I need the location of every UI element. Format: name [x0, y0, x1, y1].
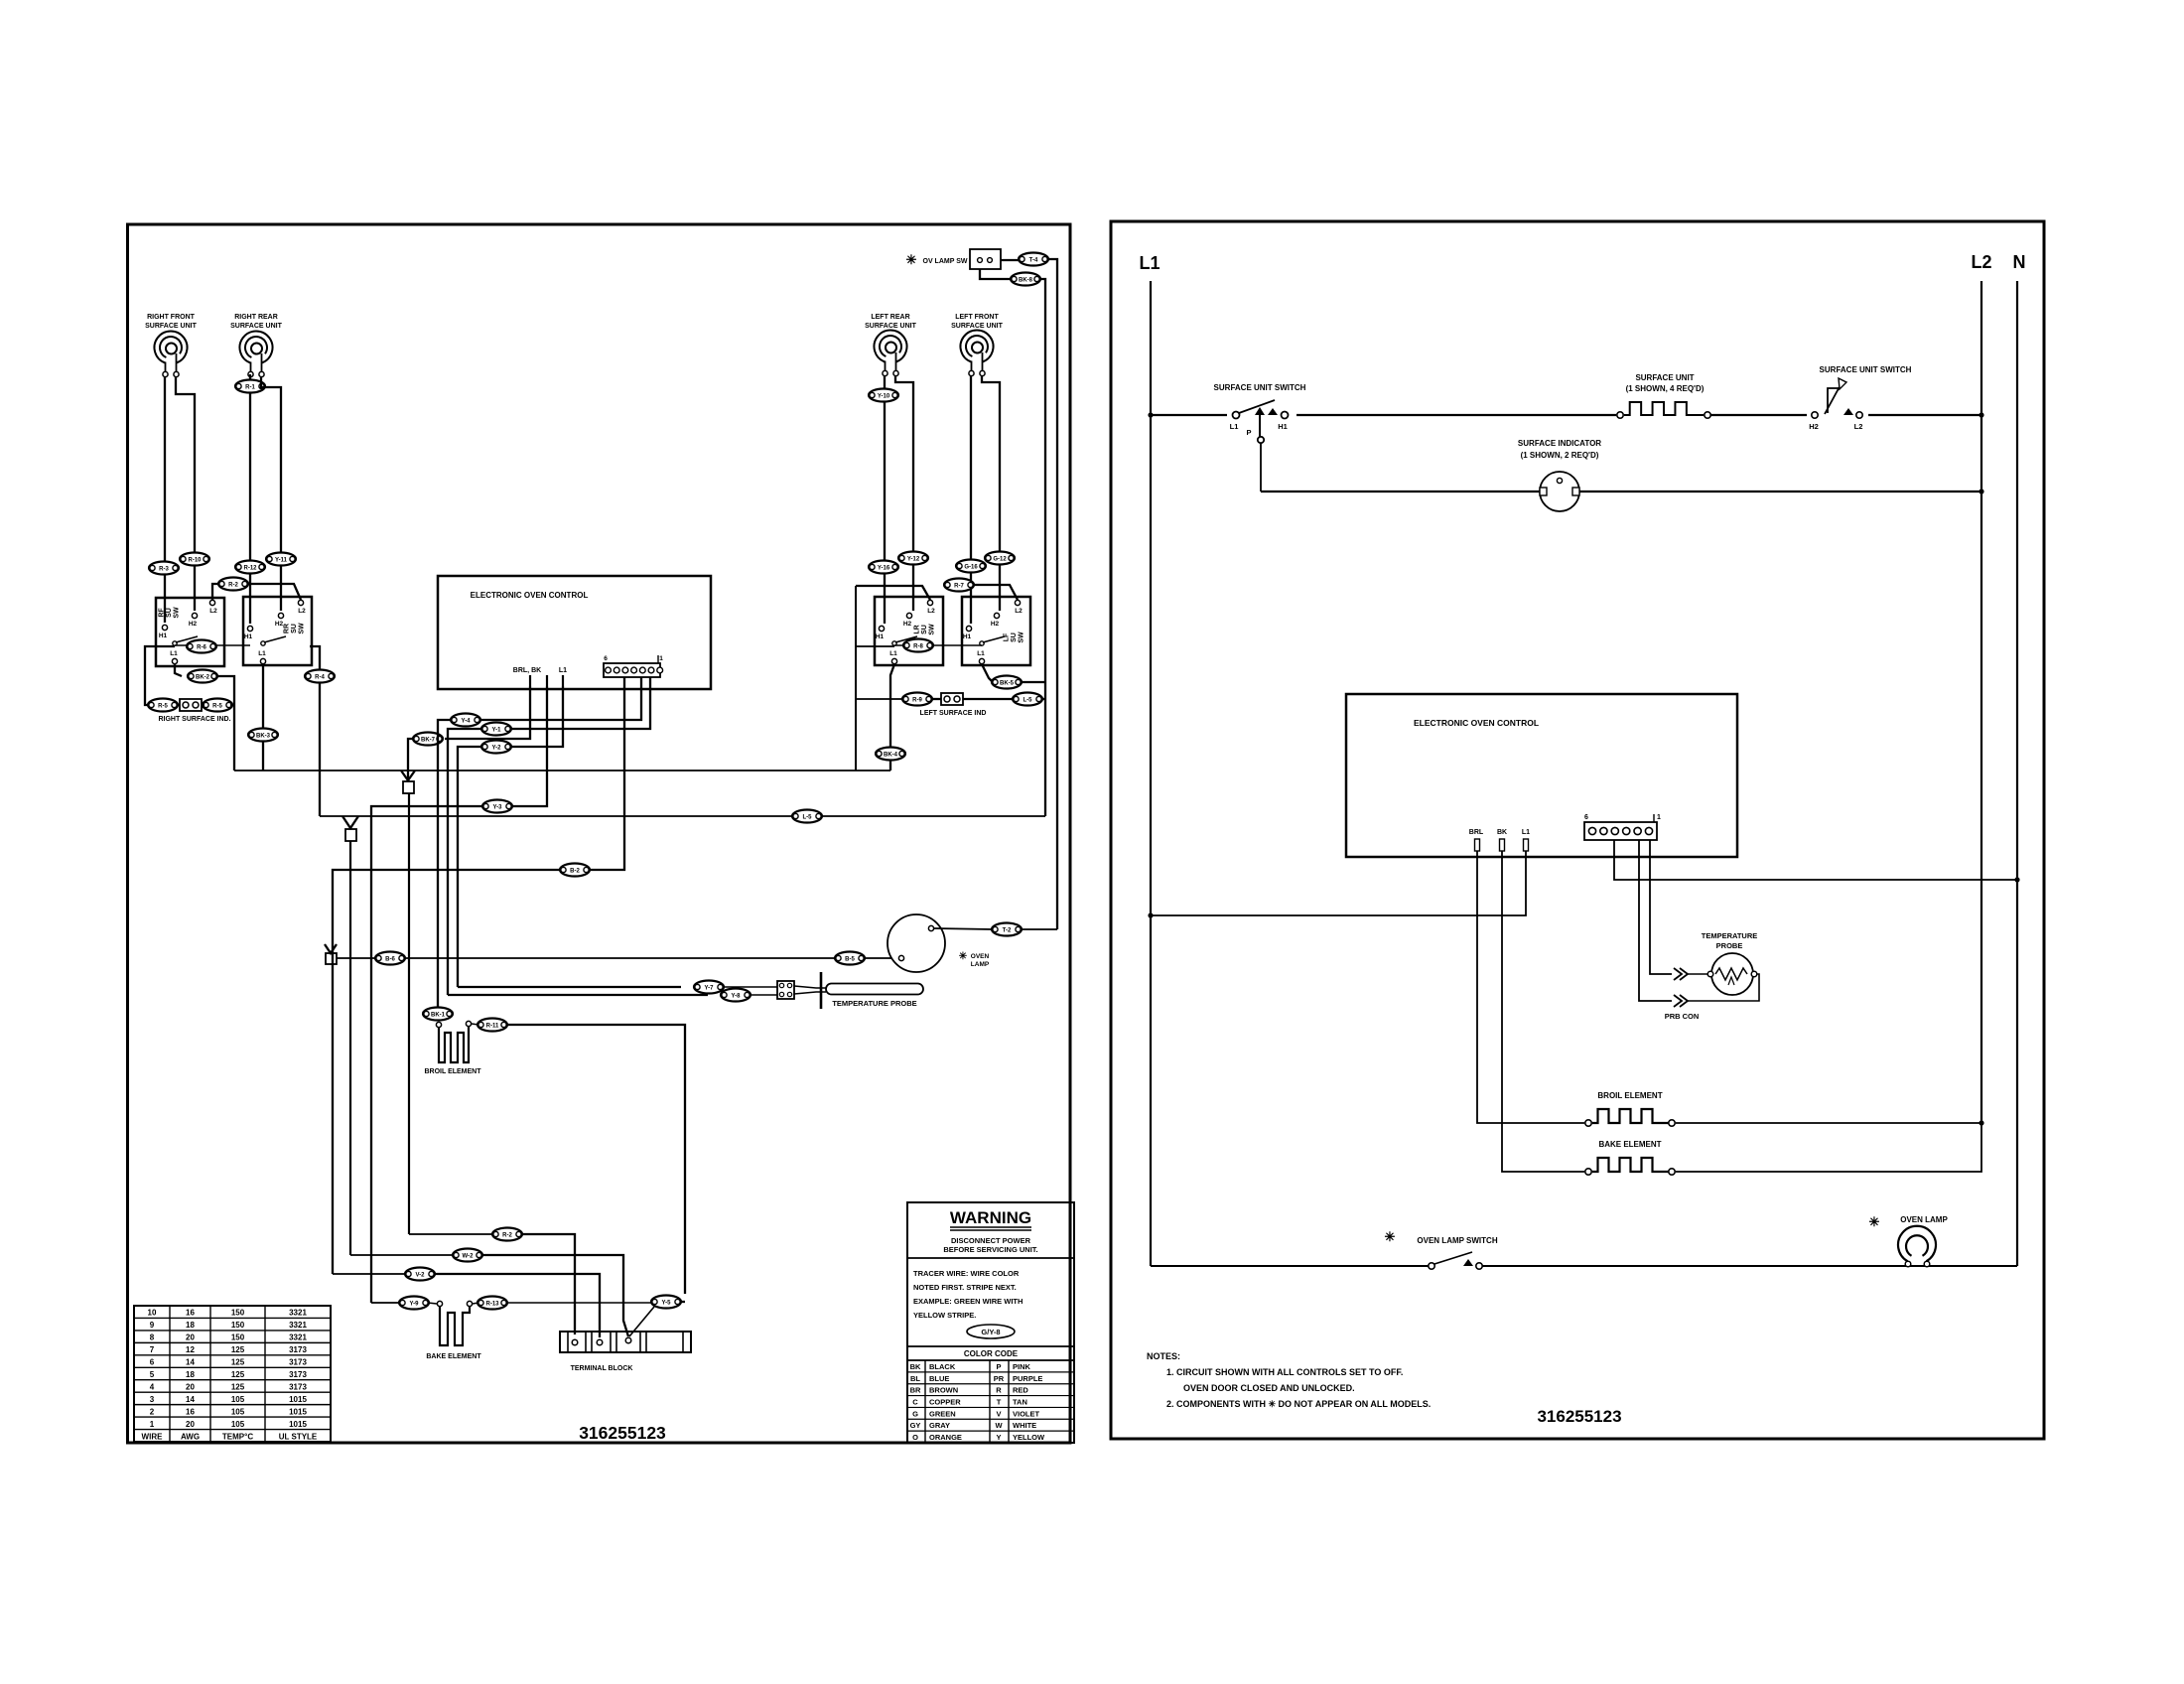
bake element [426, 1301, 481, 1360]
svg-text:TEMPERATURE: TEMPERATURE [1702, 931, 1758, 940]
wire LF left lead [970, 376, 972, 624]
left surface indicator row [902, 693, 1045, 718]
wire RF right lead [176, 377, 195, 611]
svg-text:R-2: R-2 [228, 582, 238, 588]
switch box LF SU SW [962, 597, 1030, 665]
wire Y-2 to vertical x461 [458, 747, 481, 987]
svg-text:BLUE: BLUE [929, 1374, 949, 1383]
connector R-8 between box3 and box4 arms [894, 644, 982, 646]
svg-text:150: 150 [231, 1321, 245, 1330]
right panel border [1111, 221, 2044, 1439]
svg-text:N: N [2013, 252, 2026, 272]
connector B-2 [560, 864, 590, 877]
svg-text:Y-5: Y-5 [661, 1300, 671, 1306]
surface unit switch right (thermal) [1807, 365, 1912, 431]
svg-text:R-9: R-9 [912, 697, 922, 703]
wire Y-5 corner from broil return [681, 1301, 685, 1303]
temperature probe body [794, 972, 923, 1009]
svg-text:R-10: R-10 [188, 557, 202, 563]
svg-text:16: 16 [186, 1309, 195, 1318]
jumper wire box1 L2 to box2 L2 via R-2 [212, 584, 219, 600]
svg-text:OV LAMP SW: OV LAMP SW [923, 258, 968, 265]
wire R-7 to box4 L2 [973, 585, 1018, 600]
svg-text:R-2: R-2 [502, 1232, 512, 1238]
connector R-1 on RR left lead [235, 380, 265, 393]
svg-text:T: T [997, 1397, 1002, 1406]
svg-text:H1: H1 [244, 633, 253, 640]
svg-text:R-13: R-13 [485, 1301, 499, 1307]
switch box RF SU SW [156, 598, 224, 666]
svg-text:✳: ✳ [1385, 1229, 1396, 1244]
svg-text:SURFACE UNIT: SURFACE UNIT [1635, 373, 1694, 382]
wire Y-3 to vertical x374 [371, 806, 482, 1303]
svg-text:8: 8 [150, 1333, 155, 1342]
wire RR left lead [249, 374, 251, 624]
svg-text:Y-16: Y-16 [878, 565, 890, 571]
svg-text:BK-2: BK-2 [196, 674, 210, 680]
right-side vertical wire to indicator feed [1044, 288, 1046, 816]
svg-text:BLACK: BLACK [929, 1362, 956, 1371]
svg-text:P: P [996, 1362, 1001, 1371]
surface unit coil LF [951, 314, 1003, 376]
wire R3 right segment [434, 1274, 600, 1337]
svg-text:T-4: T-4 [1029, 257, 1038, 263]
wire box1 L1 to connector BK-2 [175, 664, 182, 676]
svg-text:H1: H1 [159, 632, 168, 639]
svg-text:1015: 1015 [289, 1395, 307, 1404]
svg-text:PR: PR [994, 1374, 1005, 1383]
svg-text:NOTES:: NOTES: [1147, 1351, 1180, 1361]
connector W-2 [453, 1249, 482, 1262]
wire junction A down [408, 793, 410, 1234]
svg-text:1. CIRCUIT SHOWN WITH ALL CON: 1. CIRCUIT SHOWN WITH ALL CONTROLS SET T… [1166, 1367, 1403, 1377]
switch box RR SU SW [243, 597, 312, 665]
svg-text:AWG: AWG [181, 1432, 200, 1441]
svg-text:SURFACE UNIT: SURFACE UNIT [145, 323, 197, 330]
connector Y-9 [399, 1297, 429, 1310]
connector Y-16 on LR left lead lower [869, 561, 898, 574]
svg-text:150: 150 [231, 1309, 245, 1318]
wire box4 L1 to connector BK-5 [982, 664, 993, 682]
connector R-2 [218, 578, 248, 591]
svg-text:RF: RF [158, 608, 165, 618]
svg-text:BR: BR [910, 1386, 921, 1395]
wire BK-8 to vertical [1039, 279, 1045, 288]
EOC right terminals BRL BK L1 [1469, 829, 1530, 851]
svg-text:LEFT REAR: LEFT REAR [871, 314, 909, 321]
oven lamp switch right panel [1385, 1229, 1498, 1269]
svg-text:BK-3: BK-3 [256, 733, 271, 739]
connector Y-12 on LR right lead [898, 552, 928, 565]
svg-text:H2: H2 [1809, 422, 1819, 431]
svg-text:ELECTRONIC OVEN CONTROL: ELECTRONIC OVEN CONTROL [1414, 718, 1539, 728]
svg-text:18: 18 [186, 1370, 195, 1379]
svg-text:Y: Y [996, 1433, 1001, 1442]
svg-text:PROBE: PROBE [1716, 941, 1743, 950]
svg-text:TERMINAL BLOCK: TERMINAL BLOCK [571, 1365, 633, 1372]
svg-text:L1: L1 [977, 650, 985, 657]
svg-text:L1: L1 [170, 650, 178, 657]
svg-text:G/Y-8: G/Y-8 [981, 1328, 1000, 1336]
svg-text:(1 SHOWN, 2 REQ'D): (1 SHOWN, 2 REQ'D) [1521, 451, 1599, 460]
connector RE-1 between box1 and box2 arms [175, 644, 250, 646]
connector Y-8 [721, 989, 751, 1002]
svg-text:RR: RR [283, 624, 290, 633]
wire from OV LAMP SW bottom to connector BK-8 [980, 269, 1012, 279]
svg-text:PRB CON: PRB CON [1665, 1012, 1700, 1021]
connector G-12 on LF right lead [985, 552, 1015, 565]
svg-text:WHITE: WHITE [1013, 1421, 1036, 1430]
svg-text:P: P [1246, 428, 1251, 437]
wire Y-1 to vertical x451 [448, 729, 481, 995]
svg-text:RIGHT FRONT: RIGHT FRONT [147, 314, 196, 321]
connector R-3 on RF left lead [149, 562, 179, 575]
svg-text:6: 6 [1584, 814, 1588, 821]
svg-text:OVEN LAMP: OVEN LAMP [1900, 1215, 1948, 1224]
svg-text:EXAMPLE: GREEN WIRE WITH: EXAMPLE: GREEN WIRE WITH [913, 1297, 1023, 1306]
svg-text:14: 14 [186, 1358, 195, 1367]
svg-text:B-2: B-2 [570, 868, 580, 874]
svg-text:105: 105 [231, 1395, 245, 1404]
svg-text:3173: 3173 [289, 1345, 307, 1354]
svg-text:SW: SW [174, 607, 181, 619]
svg-text:Y-7: Y-7 [704, 985, 714, 991]
wire LF right lead [982, 376, 1000, 611]
svg-text:OVEN DOOR CLOSED AND UNLOCKED.: OVEN DOOR CLOSED AND UNLOCKED. [1183, 1383, 1355, 1393]
connector R-10 on RF right lead [180, 553, 209, 566]
connector R-2b [492, 1228, 522, 1241]
wire BK-7 to V junction [408, 739, 414, 780]
svg-text:Y-1: Y-1 [491, 727, 501, 733]
svg-text:L-5: L-5 [803, 814, 813, 820]
connector Y-11 on RR right lead [266, 553, 296, 566]
svg-text:R-1: R-1 [245, 384, 255, 390]
broil element [424, 1021, 481, 1075]
svg-text:Y-4: Y-4 [461, 718, 471, 724]
svg-text:R-11: R-11 [486, 1023, 499, 1029]
svg-text:SU: SU [921, 625, 928, 634]
svg-text:PINK: PINK [1013, 1362, 1031, 1371]
svg-text:Y-11: Y-11 [275, 557, 288, 563]
connector BK-8 [1011, 273, 1040, 286]
svg-text:WIRE: WIRE [142, 1432, 164, 1441]
wire lamp bus main segment [404, 957, 837, 959]
svg-text:R-3: R-3 [159, 566, 169, 572]
svg-text:COPPER: COPPER [929, 1397, 961, 1406]
wire bake feed [371, 1302, 400, 1304]
connector R-11 [478, 1019, 507, 1032]
svg-text:BK-4: BK-4 [884, 752, 898, 758]
V junction into quick connect [401, 771, 415, 780]
quick connect block C on lamp bus [325, 944, 337, 964]
svg-text:Y-10: Y-10 [878, 393, 890, 399]
svg-text:316255123: 316255123 [1537, 1407, 1621, 1426]
wire run y776 L1 bus [234, 770, 890, 772]
svg-text:150: 150 [231, 1333, 245, 1342]
svg-text:GY: GY [910, 1421, 921, 1430]
svg-text:SU: SU [291, 624, 298, 633]
svg-text:SU: SU [1011, 632, 1018, 642]
svg-text:H2: H2 [991, 621, 1000, 628]
svg-text:BAKE ELEMENT: BAKE ELEMENT [426, 1353, 481, 1360]
svg-text:SW: SW [299, 623, 306, 634]
wire box3 L1 drop [890, 664, 894, 771]
wire strip pin to connector Y-4 [481, 677, 641, 720]
EOC right connector strip [1584, 814, 1661, 840]
svg-text:3173: 3173 [289, 1370, 307, 1379]
svg-text:SURFACE INDICATOR: SURFACE INDICATOR [1518, 439, 1601, 448]
svg-text:✳: ✳ [906, 252, 917, 267]
wire BK-5 to right vertical [1021, 681, 1045, 683]
svg-text:1: 1 [1657, 814, 1661, 821]
connector Y-5 [651, 1296, 681, 1309]
svg-text:3173: 3173 [289, 1358, 307, 1367]
wire run y822 horizontal [320, 815, 1045, 817]
svg-text:R-8: R-8 [913, 643, 923, 649]
svg-text:SURFACE UNIT: SURFACE UNIT [230, 323, 282, 330]
svg-text:BK-5: BK-5 [1000, 680, 1015, 686]
svg-text:PURPLE: PURPLE [1013, 1374, 1042, 1383]
svg-text:2: 2 [150, 1407, 155, 1416]
wire broil right to connector R-11 [472, 1024, 478, 1025]
svg-text:Y-9: Y-9 [409, 1301, 419, 1307]
wire lamp bus left segment [337, 957, 377, 959]
svg-text:GREEN: GREEN [929, 1409, 956, 1418]
svg-text:C: C [912, 1397, 918, 1406]
wire run y822 to right side [310, 646, 320, 816]
connector B-6 [375, 952, 405, 965]
wire N line [2016, 281, 2018, 1266]
svg-text:WARNING: WARNING [950, 1208, 1031, 1227]
svg-text:BL: BL [910, 1374, 920, 1383]
svg-text:L2: L2 [1854, 422, 1863, 431]
svg-text:R-5: R-5 [212, 703, 222, 709]
jumper wire box3 L2 to box4 L2 via R-7 [856, 586, 930, 600]
wire B-2 to vertical x335 [333, 870, 560, 1274]
temperature probe right panel [1702, 931, 1758, 950]
connector Y-4 [451, 714, 480, 727]
svg-text:SW: SW [929, 624, 936, 635]
quick connect block A [403, 781, 414, 793]
svg-text:BROIL ELEMENT: BROIL ELEMENT [1597, 1091, 1662, 1100]
notes text [1147, 1351, 1431, 1409]
surface unit coil RF [145, 314, 197, 377]
switch box LR SU SW [875, 597, 943, 665]
svg-text:L-5: L-5 [1024, 697, 1033, 703]
svg-text:OVEN LAMP SWITCH: OVEN LAMP SWITCH [1417, 1236, 1497, 1245]
svg-text:BRL, BK: BRL, BK [513, 667, 541, 674]
diagonal wire Y-5 to terminal block [629, 1307, 654, 1336]
wire probe upper from x461 [458, 986, 681, 988]
svg-text:COLOR CODE: COLOR CODE [964, 1349, 1019, 1358]
svg-text:1: 1 [659, 655, 663, 662]
wire BK pin to bake [1502, 851, 1584, 1172]
svg-text:14: 14 [186, 1395, 195, 1404]
svg-text:L2: L2 [1015, 608, 1023, 615]
wire row R1 to terminal block [409, 1233, 493, 1235]
connector BK-3 on box2 L1 drop [248, 729, 278, 742]
wire gauge table [134, 1306, 331, 1442]
svg-text:L1: L1 [1522, 829, 1530, 836]
connector Y-7 [694, 981, 724, 994]
svg-text:L1: L1 [258, 650, 266, 657]
svg-text:125: 125 [231, 1358, 245, 1367]
svg-text:W-2: W-2 [463, 1253, 475, 1259]
svg-text:125: 125 [231, 1382, 245, 1391]
svg-text:TRACER WIRE: WIRE COLOR: TRACER WIRE: WIRE COLOR [913, 1269, 1020, 1278]
svg-text:20: 20 [186, 1420, 195, 1429]
wire R-2 to box2 L2 [247, 584, 301, 600]
connector BK-5 [992, 676, 1022, 689]
wire strip pin to probe upper [1650, 840, 1672, 974]
svg-text:1015: 1015 [289, 1407, 307, 1416]
wire junction B down [349, 841, 351, 1255]
svg-text:R-6: R-6 [197, 644, 206, 650]
connector R-12 on RR left lead lower [235, 561, 265, 574]
svg-text:9: 9 [150, 1321, 155, 1330]
svg-text:3173: 3173 [289, 1382, 307, 1391]
connector V-2 [405, 1268, 435, 1281]
svg-text:DISCONNECT POWER: DISCONNECT POWER [951, 1236, 1031, 1245]
svg-text:BROIL ELEMENT: BROIL ELEMENT [424, 1068, 481, 1075]
wire RF left lead [164, 377, 166, 623]
wire strip pin to connector Y-1 [512, 677, 650, 729]
svg-text:20: 20 [186, 1382, 195, 1391]
svg-text:G-12: G-12 [993, 556, 1007, 562]
svg-text:V-2: V-2 [415, 1272, 425, 1278]
svg-text:BROWN: BROWN [929, 1386, 958, 1395]
svg-text:L1: L1 [889, 650, 897, 657]
svg-text:H1: H1 [876, 633, 885, 640]
arm wire left group [145, 646, 175, 705]
svg-text:L2: L2 [298, 608, 306, 615]
svg-text:R: R [996, 1386, 1002, 1395]
svg-text:G-16: G-16 [964, 564, 978, 570]
svg-text:B-6: B-6 [385, 956, 395, 962]
wire Y-4 to broil drop [438, 720, 451, 1007]
svg-text:H2: H2 [275, 621, 284, 628]
svg-text:VIOLET: VIOLET [1013, 1409, 1040, 1418]
wire bake return [506, 1302, 651, 1304]
broil element right panel [1585, 1091, 1675, 1126]
svg-text:H2: H2 [903, 621, 912, 628]
svg-text:LR: LR [913, 625, 920, 633]
wire L1 pin to connector Y-2 [512, 686, 563, 747]
svg-text:Y-8: Y-8 [731, 993, 741, 999]
svg-text:16: 16 [186, 1407, 195, 1416]
connector R-4 on x322 [305, 670, 335, 683]
svg-text:BEFORE SERVICING UNIT.: BEFORE SERVICING UNIT. [943, 1245, 1037, 1254]
svg-text:L2: L2 [209, 608, 217, 615]
svg-text:TEMPERATURE PROBE: TEMPERATURE PROBE [832, 999, 916, 1008]
right surface indicator row [148, 699, 234, 724]
svg-text:10: 10 [148, 1309, 157, 1318]
svg-text:GRAY: GRAY [929, 1421, 950, 1430]
wire broil return to Y-5 drop [506, 1025, 685, 1294]
svg-text:BK-7: BK-7 [421, 737, 436, 743]
connector G-16 on LF left lead [956, 560, 986, 573]
V junction into quick connect B [342, 816, 358, 828]
svg-text:SURFACE UNIT SWITCH: SURFACE UNIT SWITCH [1820, 365, 1912, 374]
temperature probe plug block [777, 981, 794, 999]
svg-text:3321: 3321 [289, 1321, 307, 1330]
svg-text:RIGHT SURFACE IND.: RIGHT SURFACE IND. [158, 716, 230, 723]
svg-text:R-5: R-5 [158, 703, 168, 709]
wire to lamp left terminal [864, 957, 898, 959]
wire Y-7 to probe plug [723, 986, 777, 988]
connector R-7 [944, 579, 974, 592]
svg-text:H1: H1 [963, 633, 972, 640]
EOC terminals BRL BK L1 [513, 667, 567, 686]
svg-text:3: 3 [150, 1395, 155, 1404]
svg-text:L2: L2 [1971, 252, 1991, 272]
vertical frame wire x862 right group [855, 586, 857, 771]
wire bottom run [1151, 1265, 1429, 1267]
wire strip pin to probe lower chevron [1639, 840, 1672, 1001]
svg-text:BK: BK [1497, 829, 1507, 836]
connector Y-3 [482, 800, 512, 813]
svg-text:UL STYLE: UL STYLE [279, 1432, 318, 1441]
wire box2 L1 drop [262, 664, 264, 771]
svg-text:YELLOW STRIPE.: YELLOW STRIPE. [913, 1311, 976, 1320]
wire strip pin6 down to B-2 run [591, 677, 624, 870]
surface unit heater [1616, 373, 1710, 423]
wire LR right lead [895, 376, 913, 611]
wire BRL pin to connector BK-7 [445, 686, 530, 739]
wire T-4 to right vertical [1048, 259, 1057, 276]
svg-text:L1: L1 [1230, 422, 1239, 431]
svg-text:✳: ✳ [1869, 1214, 1880, 1229]
terminal block [560, 1332, 691, 1372]
svg-text:105: 105 [231, 1407, 245, 1416]
wire top run L1 to L2 [1151, 414, 1981, 416]
svg-text:RIGHT REAR: RIGHT REAR [234, 314, 278, 321]
svg-text:W: W [995, 1421, 1003, 1430]
svg-text:L2: L2 [927, 608, 935, 615]
svg-text:ELECTRONIC OVEN CONTROL: ELECTRONIC OVEN CONTROL [471, 591, 589, 600]
oven lamp switch box OV LAMP SW [906, 249, 1001, 269]
wire BRL pin to broil [1477, 851, 1584, 1123]
connector T-2 [992, 923, 1022, 936]
oven lamp [887, 914, 945, 972]
connector BK-1 on broil drop [423, 1008, 453, 1021]
svg-text:BK-8: BK-8 [1019, 277, 1033, 283]
wire R2 right segment [481, 1255, 628, 1336]
svg-text:316255123: 316255123 [579, 1423, 666, 1443]
wire R1 right segment [521, 1234, 575, 1334]
svg-text:1: 1 [150, 1420, 155, 1429]
chevron plug lower [1674, 995, 1688, 1007]
oven lamp right panel [1869, 1214, 1949, 1267]
connector L-5 on y822 [792, 810, 822, 823]
wire RR right lead [261, 377, 281, 611]
connector T-4 [1019, 253, 1048, 266]
svg-text:BK: BK [910, 1362, 921, 1371]
svg-text:H2: H2 [189, 621, 198, 628]
connector BK-4 on box3 L1 drop [876, 748, 905, 761]
svg-text:SURFACE UNIT: SURFACE UNIT [951, 323, 1003, 330]
svg-text:TEMP°C: TEMP°C [222, 1432, 253, 1441]
connector BK-7 [413, 733, 443, 746]
wire broil to L2 [1676, 1122, 1981, 1124]
wire from OV LAMP SW to connector T-4 [1001, 259, 1019, 261]
svg-text:5: 5 [150, 1370, 155, 1379]
connector R-13 right of bake [473, 1303, 478, 1304]
svg-text:125: 125 [231, 1345, 245, 1354]
wire P drop to indicator run [1260, 443, 1262, 491]
connector Y-10 on LR left lead [869, 389, 898, 402]
svg-text:ORANGE: ORANGE [929, 1433, 962, 1442]
